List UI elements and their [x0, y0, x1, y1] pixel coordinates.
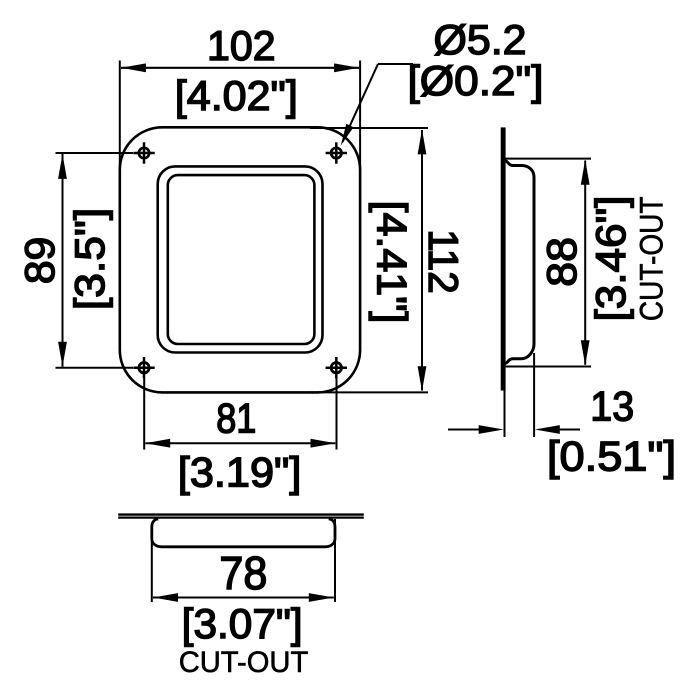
bottom view plate bottom face [118, 516, 364, 518]
screw hole bottom-right [326, 357, 347, 378]
dim 13 extension line right [533, 353, 535, 437]
dim 102 arrow left [121, 63, 146, 72]
svg-text:[3.5"]: [3.5"] [66, 208, 113, 310]
dim 112 arrow top [418, 129, 427, 154]
dim 81 extension line left [143, 378, 145, 450]
dim 102 extension line right [359, 61, 361, 171]
dim 112 extension line top [310, 127, 428, 129]
dim 13 arrow line right [559, 429, 581, 431]
dim 78 arrow left [153, 593, 178, 602]
svg-text:[0.51"]: [0.51"] [547, 433, 676, 480]
leader arrowhead [341, 124, 354, 146]
front view dish lip inner [168, 175, 315, 344]
svg-text:Ø5.2: Ø5.2 [434, 16, 527, 63]
svg-text:13: 13 [590, 383, 634, 430]
screw hole bottom-left [133, 357, 154, 378]
dim 88 dimension line [584, 161, 586, 365]
svg-text:112: 112 [420, 229, 467, 293]
screw hole top-right [326, 142, 347, 163]
dim 81 extension line right [336, 378, 338, 450]
bottom view plate top face [118, 513, 364, 515]
svg-text:CUT-OUT: CUT-OUT [633, 196, 669, 321]
dim 81 arrow right [311, 439, 336, 448]
svg-text:78: 78 [219, 547, 267, 599]
svg-text:[4.02"]: [4.02"] [175, 72, 298, 119]
dim 78 extension line right [334, 519, 336, 602]
svg-text:[3.46"]: [3.46"] [587, 196, 634, 322]
dim 89 extension line bottom [56, 367, 134, 369]
dim 88 arrow bottom [581, 340, 590, 365]
dim 112 dimension line [421, 130, 423, 391]
svg-text:102: 102 [207, 22, 276, 69]
dim 89 arrow top [58, 154, 67, 179]
front view dish lip outer [158, 166, 323, 352]
dim 89 arrow bottom [58, 342, 67, 367]
svg-text:[3.19"]: [3.19"] [178, 449, 302, 496]
dim 89 dimension line [62, 154, 64, 367]
svg-text:[4.41"]: [4.41"] [369, 201, 416, 324]
svg-text:81: 81 [216, 395, 256, 442]
svg-text:88: 88 [538, 237, 585, 287]
bottom view dish profile [152, 519, 335, 547]
svg-text:89: 89 [16, 237, 63, 284]
dim 88 arrow top [581, 160, 590, 185]
dim 13 extension line left [504, 390, 506, 437]
leader underline [378, 63, 413, 65]
dim 88 extension line bottom [506, 366, 592, 368]
dim 102 dimension line [121, 67, 359, 69]
side view dish profile [505, 161, 534, 364]
dim 13 arrow line left [448, 429, 480, 431]
front view plate outline [120, 127, 360, 392]
dim 102 extension line left [119, 61, 121, 186]
svg-text:[Ø0.2"]: [Ø0.2"] [408, 57, 544, 104]
svg-text:[3.07"]: [3.07"] [182, 600, 303, 647]
dim 81 arrow left [145, 439, 170, 448]
dim 102 arrow right [334, 63, 359, 72]
dim 78 dimension line [153, 597, 334, 599]
dim 78 extension line left [151, 540, 153, 602]
screw hole top-left [133, 142, 154, 163]
side view flange front face [501, 127, 506, 390]
dim 13 arrow right [535, 425, 560, 434]
svg-text:CUT-OUT: CUT-OUT [179, 646, 309, 679]
dim 112 extension line bottom [310, 391, 428, 393]
dim 13 arrow left [479, 425, 504, 434]
dim 112 arrow bottom [418, 366, 427, 391]
leader line [343, 64, 379, 142]
dim 88 extension line top [506, 158, 592, 160]
dim 78 arrow right [309, 593, 334, 602]
dim 81 dimension line [146, 442, 336, 444]
dim 89 extension line top [56, 152, 134, 154]
